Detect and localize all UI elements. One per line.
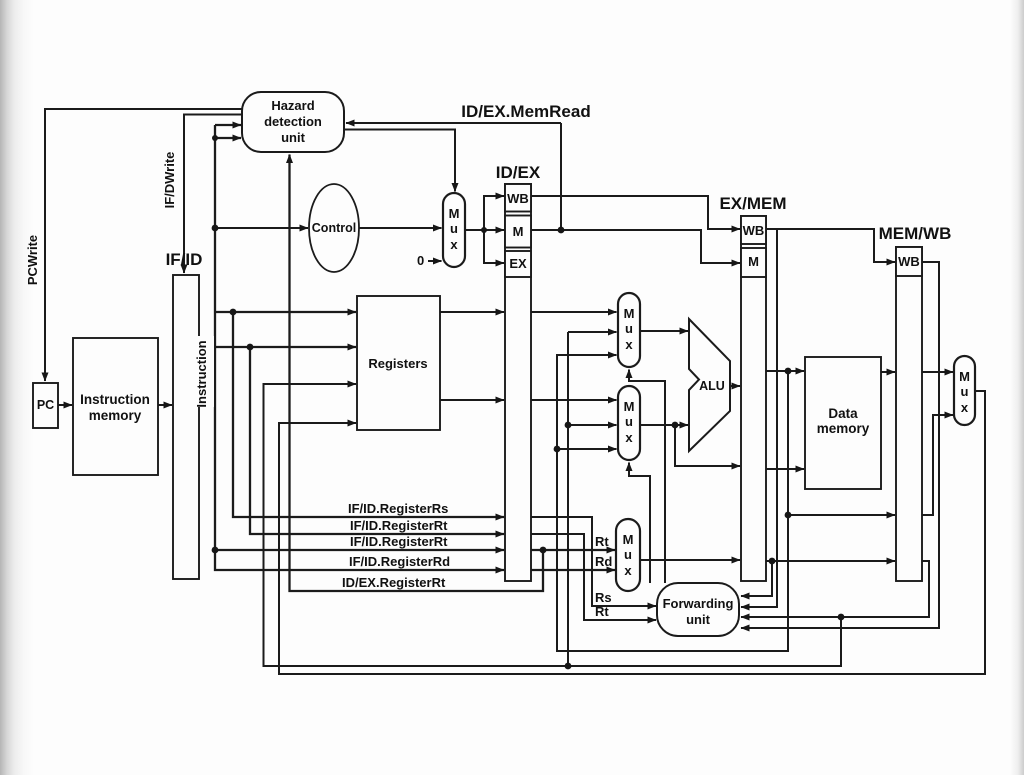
- svg-text:u: u: [625, 414, 633, 429]
- svg-text:x: x: [625, 337, 633, 352]
- svg-text:ID/EX: ID/EX: [496, 163, 541, 182]
- svg-text:EX/MEM: EX/MEM: [719, 194, 786, 213]
- svg-text:Registers: Registers: [368, 356, 427, 371]
- svg-text:ID/EX.MemRead: ID/EX.MemRead: [461, 102, 590, 121]
- svg-text:memory: memory: [89, 408, 142, 423]
- svg-text:u: u: [961, 384, 969, 399]
- svg-text:x: x: [625, 430, 633, 445]
- svg-text:u: u: [450, 221, 458, 236]
- svg-text:M: M: [624, 306, 635, 321]
- svg-text:Instruction: Instruction: [80, 392, 150, 407]
- svg-text:Rt: Rt: [595, 534, 609, 549]
- svg-text:detection: detection: [264, 114, 322, 129]
- svg-text:u: u: [624, 547, 632, 562]
- svg-text:M: M: [513, 224, 524, 239]
- svg-text:IF/ID: IF/ID: [166, 250, 203, 269]
- svg-text:IF/ID.RegisterRs: IF/ID.RegisterRs: [348, 501, 448, 516]
- svg-text:Rt: Rt: [595, 604, 609, 619]
- svg-text:M: M: [624, 399, 635, 414]
- svg-text:0: 0: [417, 253, 424, 268]
- svg-text:WB: WB: [507, 191, 529, 206]
- svg-text:x: x: [961, 400, 969, 415]
- svg-text:ID/EX.RegisterRt: ID/EX.RegisterRt: [342, 575, 446, 590]
- svg-text:x: x: [450, 237, 458, 252]
- svg-text:Data: Data: [828, 406, 858, 421]
- svg-text:ALU: ALU: [699, 379, 725, 393]
- svg-text:M: M: [623, 532, 634, 547]
- svg-text:Instruction: Instruction: [194, 340, 209, 407]
- svg-text:M: M: [748, 254, 759, 269]
- svg-text:PC: PC: [37, 398, 54, 412]
- svg-text:EX: EX: [509, 256, 527, 271]
- svg-text:WB: WB: [898, 254, 920, 269]
- svg-text:WB: WB: [743, 223, 765, 238]
- svg-text:MEM/WB: MEM/WB: [879, 224, 952, 243]
- svg-text:u: u: [625, 321, 633, 336]
- svg-text:unit: unit: [686, 612, 710, 627]
- svg-text:M: M: [959, 369, 970, 384]
- svg-text:IF/ID.RegisterRt: IF/ID.RegisterRt: [350, 534, 448, 549]
- svg-text:memory: memory: [817, 421, 870, 436]
- svg-text:Rd: Rd: [595, 554, 612, 569]
- svg-text:Control: Control: [312, 221, 356, 235]
- svg-text:Hazard: Hazard: [271, 98, 314, 113]
- svg-text:IF/ID.RegisterRt: IF/ID.RegisterRt: [350, 518, 448, 533]
- svg-text:IF/ID.RegisterRd: IF/ID.RegisterRd: [349, 554, 450, 569]
- svg-text:Forwarding: Forwarding: [663, 596, 734, 611]
- svg-text:x: x: [624, 563, 632, 578]
- svg-text:Rs: Rs: [595, 590, 612, 605]
- svg-text:M: M: [449, 206, 460, 221]
- svg-text:PCWrite: PCWrite: [25, 235, 40, 285]
- svg-text:IF/DWrite: IF/DWrite: [162, 152, 177, 209]
- svg-text:unit: unit: [281, 130, 305, 145]
